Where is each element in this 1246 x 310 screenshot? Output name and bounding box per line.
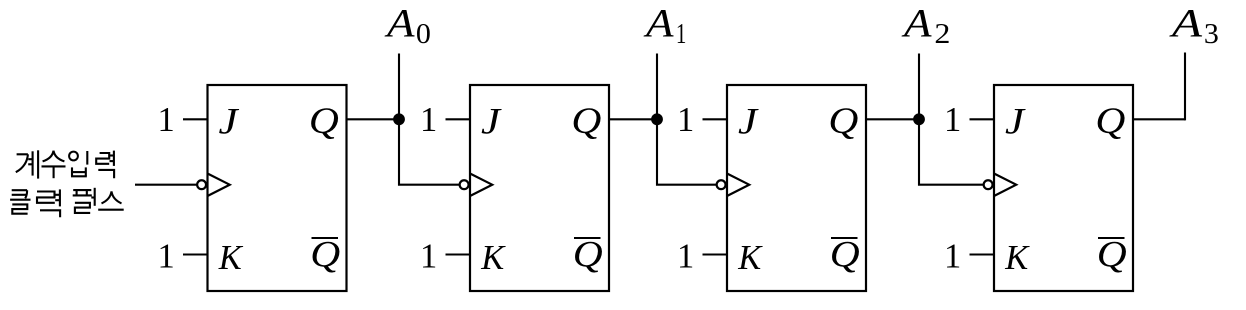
svg-text:Q: Q: [310, 235, 340, 276]
wire: Q3 output from U4: [1133, 118, 1185, 120]
clock bubble (U3): [717, 180, 726, 189]
svg-text:J: J: [1005, 102, 1026, 143]
svg-text:1: 1: [420, 101, 437, 139]
svg-text:Q: Q: [571, 101, 601, 142]
svg-text:Q: Q: [1095, 101, 1125, 142]
wire: 1 to K input (U3): [703, 253, 728, 255]
clock bubble (U2): [460, 180, 469, 189]
svg-text:A: A: [384, 1, 416, 46]
svg-text:Q: Q: [830, 235, 860, 276]
wire: riser to A1 label: [656, 54, 658, 120]
svg-text:2: 2: [934, 19, 950, 50]
clock edge triangle (U2): [470, 174, 492, 197]
wire: 1 to J input (U2): [446, 118, 471, 120]
label text line 1: 계수입력 (counting input): [16, 150, 114, 178]
svg-text:Q: Q: [309, 101, 339, 142]
svg-text:1: 1: [676, 19, 687, 50]
svg-text:K: K: [218, 238, 244, 277]
clock edge triangle (U1): [208, 174, 230, 197]
wire: 1 to J input (U1): [183, 118, 208, 120]
wire: A0 down to U2 clock: [399, 119, 460, 184]
wire: clock input to U1: [135, 184, 198, 186]
svg-text:J: J: [738, 102, 759, 143]
svg-text:J: J: [481, 102, 502, 143]
wire: Q1 output from U2: [609, 118, 658, 120]
wire: 1 to J input (U4): [970, 118, 995, 120]
wire: 1 to J input (U3): [703, 118, 728, 120]
svg-text:A: A: [1168, 1, 1202, 46]
label text line 2: 클럭 펄스 (clock pulse): [10, 188, 124, 217]
junction node A2 (solder dot): [913, 113, 925, 125]
junction node A0 (solder dot): [393, 113, 405, 125]
svg-text:1: 1: [158, 101, 175, 139]
svg-text:K: K: [737, 238, 763, 277]
svg-text:1: 1: [158, 238, 175, 276]
svg-text:1: 1: [677, 101, 694, 139]
svg-text:A: A: [643, 1, 675, 46]
JK flip-flop U3 (box): [727, 85, 866, 291]
svg-text:Q: Q: [828, 101, 858, 142]
wire: riser to A0 label: [398, 54, 400, 120]
junction node A1 (solder dot): [651, 113, 663, 125]
svg-text:K: K: [480, 238, 506, 277]
svg-text:3: 3: [1204, 19, 1219, 50]
clock bubble (U1): [197, 180, 206, 189]
svg-text:1: 1: [944, 101, 961, 139]
svg-text:Q: Q: [573, 235, 603, 276]
clock edge triangle (U4): [994, 174, 1016, 197]
JK flip-flop U1 (box): [208, 85, 347, 291]
JK flip-flop U4 (box): [994, 85, 1133, 291]
JK flip-flop U2 (box): [470, 85, 609, 291]
wire: 1 to K input (U2): [446, 253, 471, 255]
svg-text:1: 1: [420, 238, 437, 276]
wire: 1 to K input (U4): [970, 253, 995, 255]
wire: Q2 output from U3: [866, 118, 920, 120]
svg-text:1: 1: [677, 238, 694, 276]
wire: A1 down to U3 clock: [657, 119, 717, 184]
wire: 1 to K input (U1): [183, 253, 208, 255]
wire: Q0 output from U1: [347, 118, 401, 120]
wire: A2 down to U4 clock: [919, 119, 984, 184]
wire: riser to A2 label: [918, 54, 920, 120]
clock edge triangle (U3): [727, 174, 749, 197]
wire: riser to A3 label: [1184, 54, 1186, 120]
clock bubble (U4): [984, 180, 993, 189]
svg-text:0: 0: [416, 19, 431, 50]
svg-text:K: K: [1004, 238, 1030, 277]
svg-text:J: J: [219, 102, 240, 143]
svg-text:Q: Q: [1097, 235, 1127, 276]
svg-text:1: 1: [944, 238, 961, 276]
svg-text:A: A: [901, 1, 933, 46]
